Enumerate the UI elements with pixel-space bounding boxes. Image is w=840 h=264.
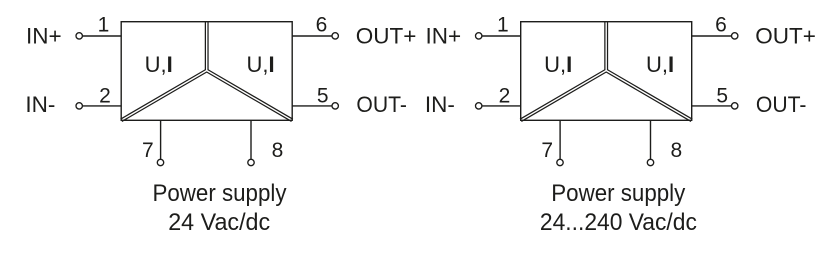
svg-text:6: 6 <box>715 13 727 36</box>
terminal circle pin7 U2 <box>557 159 563 165</box>
svg-text:6: 6 <box>316 13 328 36</box>
terminal circle pin8 U2 <box>647 159 653 165</box>
wire pin1 to block <box>82 35 121 37</box>
svg-text:Power supply: Power supply <box>153 180 288 207</box>
wire pin2 to block <box>82 105 121 107</box>
converter block U2 body <box>521 22 692 121</box>
converter block U1 body <box>121 22 292 121</box>
wire block to pin6 U2 <box>692 35 732 37</box>
svg-text:OUT-: OUT- <box>356 92 407 117</box>
wire block to pin8 U2 <box>650 120 652 159</box>
terminal circle pin5 <box>332 103 338 109</box>
isolation barrier white channel U1 <box>121 21 292 120</box>
svg-text:OUT+: OUT+ <box>755 24 816 49</box>
svg-text:U,I: U,I <box>246 52 274 77</box>
wire block to pin7 <box>160 120 162 159</box>
svg-text:7: 7 <box>541 139 553 162</box>
wire block to pin5 <box>292 105 332 107</box>
svg-text:Power supply: Power supply <box>551 180 686 207</box>
svg-text:IN+: IN+ <box>426 24 462 49</box>
terminal circle pin2 <box>76 103 82 109</box>
svg-text:OUT+: OUT+ <box>356 24 417 49</box>
svg-text:2: 2 <box>99 84 111 107</box>
svg-text:24 Vac/dc: 24 Vac/dc <box>168 209 270 236</box>
terminal circle pin6 U2 <box>732 33 738 39</box>
svg-text:1: 1 <box>98 13 110 36</box>
svg-text:24...240 Vac/dc: 24...240 Vac/dc <box>540 209 697 236</box>
terminal circle pin7 <box>157 159 163 165</box>
terminal circle pin5 U2 <box>732 103 738 109</box>
svg-text:7: 7 <box>142 139 154 162</box>
terminal circle pin1 U2 <box>476 33 482 39</box>
svg-text:IN-: IN- <box>25 92 55 117</box>
wire block to pin6 <box>292 35 332 37</box>
terminal circle pin2 U2 <box>476 103 482 109</box>
wire pin1 to block U2 <box>482 35 521 37</box>
svg-text:U,I: U,I <box>145 52 173 77</box>
svg-text:OUT-: OUT- <box>756 92 807 117</box>
svg-text:5: 5 <box>317 84 329 107</box>
wire block to pin5 U2 <box>692 105 732 107</box>
wire pin2 to block U2 <box>482 105 521 107</box>
isolation barrier white channel U2 <box>521 21 692 120</box>
isolation barrier double-line (black base) U1 <box>121 22 292 121</box>
terminal circle pin8 <box>248 159 254 165</box>
svg-text:8: 8 <box>272 139 284 162</box>
terminal circle pin6 <box>332 33 338 39</box>
wire block to pin8 <box>250 120 252 159</box>
svg-text:8: 8 <box>670 139 682 162</box>
svg-text:U,I: U,I <box>544 52 572 77</box>
svg-text:2: 2 <box>499 84 511 107</box>
svg-text:IN-: IN- <box>425 92 455 117</box>
wire block to pin7 U2 <box>559 120 561 159</box>
svg-text:IN+: IN+ <box>26 24 62 49</box>
terminal circle pin1 <box>76 33 82 39</box>
isolation barrier double-line (black base) U2 <box>521 22 692 121</box>
svg-text:U,I: U,I <box>646 52 674 77</box>
svg-text:1: 1 <box>497 13 509 36</box>
svg-text:5: 5 <box>716 84 728 107</box>
